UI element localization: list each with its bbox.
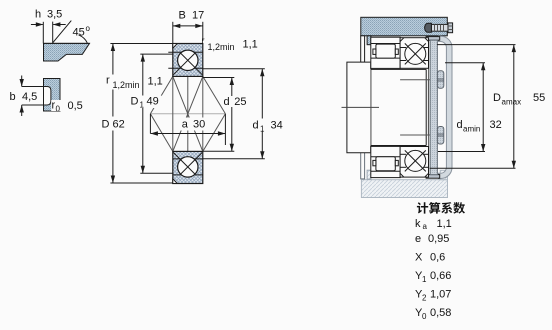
extension line h left xyxy=(42,22,44,44)
axis cross xyxy=(342,106,380,108)
snap ring cap top xyxy=(426,37,440,41)
ball X xyxy=(405,43,426,64)
svg-text:34: 34 xyxy=(271,120,283,132)
svg-text:amax: amax xyxy=(502,98,522,107)
dimension d1 line xyxy=(261,69,263,159)
chamfers xyxy=(400,38,404,42)
bottom ring section xyxy=(173,151,203,183)
dimension d1: extension top xyxy=(203,68,265,70)
contact rhombus right upper xyxy=(203,76,226,113)
svg-text:amin: amin xyxy=(463,125,480,134)
svg-text:d: d xyxy=(457,119,463,131)
cage tab left bottom xyxy=(373,160,376,165)
chamfers bottom xyxy=(400,173,404,177)
svg-text:1,2min: 1,2min xyxy=(208,42,235,52)
svg-text:32: 32 xyxy=(490,119,502,131)
svg-text:0: 0 xyxy=(56,105,61,114)
svg-text:D: D xyxy=(131,96,139,108)
rivet lug lower xyxy=(437,127,443,145)
QJ bearing bottom (right fig) xyxy=(400,147,428,178)
dimension Damax line xyxy=(513,45,515,169)
arrow b top (down) xyxy=(21,76,23,87)
svg-text:0,66: 0,66 xyxy=(430,270,451,282)
contact rhombus left upper xyxy=(150,76,172,113)
contact rhombus left lower xyxy=(150,114,172,152)
dimension a: right vertical stub xyxy=(224,114,226,145)
dim line 3,5 (arrow left) xyxy=(53,24,65,26)
left side edge between sections xyxy=(172,76,174,151)
top surface line xyxy=(44,42,90,44)
cage tab right xyxy=(395,49,398,54)
svg-text:d: d xyxy=(253,120,259,132)
label r0 0,5 xyxy=(51,100,62,111)
ball bottom xyxy=(178,157,198,177)
dimension a: left vertical stub xyxy=(149,114,151,134)
cage tab left xyxy=(373,49,376,54)
45 degree line xyxy=(53,21,72,43)
svg-text:1: 1 xyxy=(260,125,265,134)
dimension B: extension right xyxy=(202,22,204,41)
dimension B: extension left xyxy=(172,22,174,43)
svg-text:2: 2 xyxy=(422,294,427,303)
outer shoulder line bottom xyxy=(173,174,203,176)
svg-text:r: r xyxy=(202,36,205,46)
dimension D1: extension top xyxy=(140,53,173,55)
svg-text:1,07: 1,07 xyxy=(430,289,451,301)
housing lip top xyxy=(367,36,371,45)
dimension D: extension top xyxy=(110,43,172,45)
svg-text:a: a xyxy=(423,222,428,231)
svg-text:D: D xyxy=(102,119,110,131)
svg-text:1,1: 1,1 xyxy=(243,39,258,51)
svg-text:49: 49 xyxy=(147,96,159,108)
shaft body xyxy=(371,69,426,145)
shoulder lines xyxy=(400,47,406,49)
ball bottom xyxy=(405,150,426,171)
dimension damin ext top xyxy=(445,62,485,64)
roller xyxy=(376,44,395,58)
ball top xyxy=(178,50,198,70)
45 degree arc xyxy=(79,35,88,43)
dimension damin ext bottom xyxy=(438,151,485,153)
inner shoulder line bottom xyxy=(173,158,203,160)
axis pitch line (gray) xyxy=(150,113,225,115)
dimension d: extension bottom xyxy=(203,150,235,152)
housing top xyxy=(361,17,448,36)
svg-text:1: 1 xyxy=(140,101,145,110)
shaft end face xyxy=(425,69,427,145)
svg-text:k: k xyxy=(415,218,421,230)
shoulder lines bottom xyxy=(400,166,406,168)
dimension D: extension bottom xyxy=(110,182,172,184)
dimension D1 line xyxy=(142,54,144,173)
svg-text:1,1: 1,1 xyxy=(437,218,452,230)
shaft step line top xyxy=(400,79,437,81)
bolt top xyxy=(431,24,448,31)
top ring section xyxy=(173,44,203,77)
housing lip bottom xyxy=(367,170,371,179)
svg-text:0,58: 0,58 xyxy=(430,307,451,319)
roller bottom xyxy=(376,157,395,171)
svg-text:X: X xyxy=(415,252,423,264)
outer shoulder line top xyxy=(168,51,203,53)
svg-text:o: o xyxy=(86,24,91,33)
svg-text:1: 1 xyxy=(422,275,427,284)
svg-text:d: d xyxy=(224,96,230,108)
snap ring cross-section blue shape xyxy=(44,43,90,61)
inner X line 2 xyxy=(173,76,203,151)
extension line b bottom xyxy=(22,104,44,106)
shaft shoulder xyxy=(347,62,371,153)
washer strip xyxy=(428,40,430,174)
roller brg inner ring line bottom xyxy=(371,156,400,158)
dimension B line xyxy=(173,25,203,27)
ball X bottom xyxy=(181,153,203,175)
dimension d: extension top xyxy=(203,77,235,79)
shaft step edge xyxy=(427,80,429,135)
groove notch xyxy=(44,87,51,105)
roller brg inner ring line xyxy=(371,57,400,59)
dimension D1: extension bottom xyxy=(140,172,173,174)
roller bearing bottom outline xyxy=(371,146,400,177)
QJ bearing top (right fig) xyxy=(400,38,428,69)
dimension Damax ext bottom xyxy=(430,167,516,169)
svg-text:r: r xyxy=(106,75,110,87)
snap ring cap bottom xyxy=(426,175,440,179)
inner shoulder line top xyxy=(168,67,203,69)
labyrinth ring bottom xyxy=(361,152,365,179)
chamfer top-left xyxy=(173,44,178,49)
svg-text:0,6: 0,6 xyxy=(430,252,445,264)
svg-text:0,95: 0,95 xyxy=(428,233,449,245)
housing bottom (light) xyxy=(361,180,447,198)
svg-text:25: 25 xyxy=(234,96,246,108)
shaft top surface xyxy=(371,68,426,70)
svg-text:0,5: 0,5 xyxy=(68,100,83,112)
title xyxy=(417,202,465,214)
housing bottom step right xyxy=(440,170,447,179)
contact rhombus right lower xyxy=(203,114,226,152)
inner X line 1 xyxy=(173,76,203,151)
svg-text:e: e xyxy=(415,233,421,245)
ball X top xyxy=(181,53,203,75)
svg-text:4,5: 4,5 xyxy=(22,91,37,103)
svg-text:17: 17 xyxy=(192,10,204,22)
dim line h (arrow right) xyxy=(31,24,43,26)
dimension Damax ext top xyxy=(437,44,516,46)
dimension d line xyxy=(231,78,233,152)
roller bearing top outline xyxy=(371,37,400,68)
roller brg outer ring line bottom xyxy=(371,170,400,172)
shaft step line bottom xyxy=(400,134,437,136)
svg-text:45: 45 xyxy=(73,27,85,39)
dimension D line xyxy=(112,44,114,184)
arrow b bottom (up) xyxy=(21,105,23,116)
cover C-ring xyxy=(439,36,453,178)
svg-text:55: 55 xyxy=(533,92,545,104)
svg-text:b: b xyxy=(10,91,16,103)
labyrinth ring top xyxy=(361,36,365,63)
extension line 3,5 xyxy=(52,22,54,43)
svg-text:1,2min: 1,2min xyxy=(113,80,140,90)
groove ring blue rect xyxy=(44,79,61,112)
text halos xyxy=(104,75,143,90)
svg-text:B: B xyxy=(179,10,186,22)
center line between balls xyxy=(187,76,189,151)
svg-text:0: 0 xyxy=(422,312,427,321)
dimension damin line xyxy=(482,63,484,152)
locating plate xyxy=(430,40,437,174)
chamfer bottom-left xyxy=(173,179,178,184)
shaft left edge (gray) xyxy=(370,62,372,153)
shaft bottom surface xyxy=(371,145,426,147)
svg-text:h: h xyxy=(35,9,41,21)
ball xyxy=(405,43,426,64)
svg-text:1,1: 1,1 xyxy=(148,76,163,88)
svg-text:a: a xyxy=(182,119,189,131)
extension line b top xyxy=(22,86,44,88)
svg-text:30: 30 xyxy=(193,119,205,131)
svg-text:D: D xyxy=(493,92,501,104)
rivet lug upper xyxy=(437,71,443,89)
dimension a line xyxy=(150,133,225,135)
svg-text:3,5: 3,5 xyxy=(47,9,62,21)
ball X bottom xyxy=(405,150,426,171)
right side edge between sections xyxy=(202,76,204,151)
dimension d1: extension bottom xyxy=(203,158,265,160)
cage tab right bottom xyxy=(395,160,398,165)
svg-text:62: 62 xyxy=(113,119,125,131)
roller brg outer ring line xyxy=(371,43,400,45)
